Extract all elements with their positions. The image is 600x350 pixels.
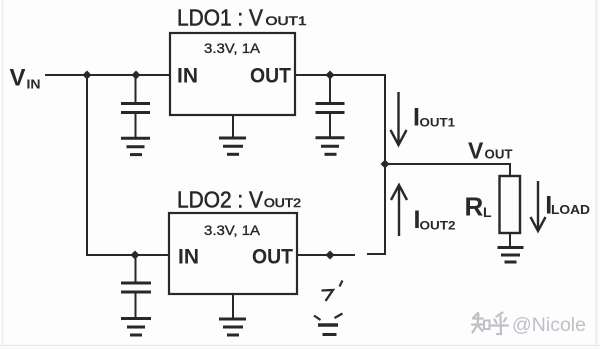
svg-text:OUT: OUT bbox=[250, 65, 291, 88]
svg-text:OUT: OUT bbox=[485, 147, 513, 162]
arrow I_LOAD bbox=[531, 181, 546, 231]
ground under C1 bbox=[121, 138, 150, 154]
svg-text:IN: IN bbox=[177, 65, 198, 88]
op box LDO1 U1 bbox=[170, 33, 295, 115]
svg-text:V: V bbox=[468, 138, 484, 164]
resistor RL bbox=[500, 176, 521, 233]
label LDO1 title bbox=[177, 5, 307, 31]
svg-text:IN: IN bbox=[27, 77, 41, 92]
wire node to V_OUT / RL bbox=[385, 163, 510, 165]
capacitor C2 (LDO1 output) bbox=[316, 75, 345, 137]
arrow I_OUT1 bbox=[391, 92, 407, 145]
label RL bbox=[465, 192, 493, 222]
svg-text:OUT1: OUT1 bbox=[420, 117, 456, 129]
erased capacitor fragments (LDO2 output cap remnant) bbox=[314, 281, 343, 335]
bottom card edge bbox=[0, 345, 600, 347]
svg-text:LDO2 : V: LDO2 : V bbox=[177, 187, 264, 213]
wire LDO2 ground lead bbox=[232, 294, 234, 318]
svg-text:OUT2: OUT2 bbox=[420, 221, 456, 233]
wire LDO1 OUT to corner bbox=[295, 74, 385, 76]
label I_LOAD bbox=[545, 192, 590, 220]
node junction C2 bbox=[326, 71, 335, 80]
svg-text:L: L bbox=[483, 204, 492, 220]
svg-text:OUT2: OUT2 bbox=[264, 198, 301, 210]
op box LDO2 U2 bbox=[169, 213, 297, 294]
wire right riser bbox=[384, 75, 386, 254]
label VIN bbox=[10, 65, 41, 92]
wire RL top lead bbox=[509, 164, 511, 176]
ground under RL bbox=[498, 248, 524, 263]
node junction C3 bbox=[131, 251, 140, 260]
wire RL bottom lead bbox=[509, 233, 511, 246]
left card edge bbox=[2, 0, 4, 345]
node junction C1 bbox=[132, 71, 141, 80]
capacitor C1 (LDO1 input) bbox=[121, 75, 150, 137]
wire V_IN to LDO1 IN bbox=[46, 74, 170, 76]
svg-text:@Nicole: @Nicole bbox=[512, 314, 586, 336]
svg-text:LOAD: LOAD bbox=[551, 202, 590, 217]
ground under LDO1 bbox=[219, 138, 246, 154]
label LDO2 title bbox=[177, 187, 301, 213]
right card edge bbox=[595, 0, 598, 345]
label I_OUT1 bbox=[413, 104, 456, 132]
label I_OUT2 bbox=[414, 206, 456, 234]
label V_OUT bbox=[468, 138, 513, 164]
svg-text:OUT: OUT bbox=[252, 246, 293, 269]
wire V_IN riser down to LDO2 bbox=[86, 75, 88, 255]
wire LDO1 ground lead bbox=[232, 115, 234, 137]
capacitor C3 (LDO2 input) bbox=[121, 255, 151, 317]
svg-text:V: V bbox=[10, 65, 26, 92]
svg-text:LDO1 : V: LDO1 : V bbox=[177, 5, 264, 31]
ground under C2 bbox=[316, 138, 345, 155]
node junction V_IN 1 bbox=[83, 71, 92, 80]
wire LDO2 OUT segment bbox=[297, 254, 354, 256]
wire stub to riser bbox=[368, 253, 385, 255]
svg-text:3.3V, 1A: 3.3V, 1A bbox=[204, 40, 261, 56]
node junction output bbox=[381, 160, 390, 169]
svg-text:R: R bbox=[465, 192, 484, 222]
ground under C3 bbox=[121, 319, 151, 336]
watermark zhihu glyphs bbox=[472, 313, 508, 335]
node junction LDO2 out bbox=[326, 251, 335, 260]
ground under LDO2 bbox=[219, 319, 246, 335]
svg-text:OUT1: OUT1 bbox=[266, 16, 307, 28]
wire bottom rail to LDO2 IN bbox=[87, 254, 169, 256]
svg-text:IN: IN bbox=[178, 246, 199, 269]
svg-text:3.3V, 1A: 3.3V, 1A bbox=[204, 222, 261, 238]
arrow I_OUT2 bbox=[391, 185, 407, 236]
